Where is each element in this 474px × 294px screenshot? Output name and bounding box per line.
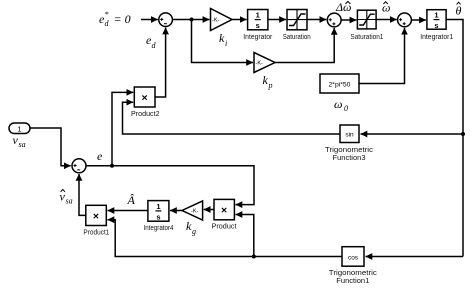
svg-text:Saturation1: Saturation1 [350,34,383,41]
wire ki to Integrator [232,19,247,21]
wire Integrator4 to Product1 input 1 [108,210,148,212]
wire Product2 output up to S1 bottom [155,28,166,97]
svg-text:1: 1 [434,11,438,20]
node junction dot theta line to sin [461,132,465,136]
wire Saturation1 to sum S3 [376,19,397,21]
label Trigonometric Function1 [329,270,378,285]
svg-text:Â: Â [127,193,136,207]
svg-text:s: s [434,21,438,30]
svg-text:Function3: Function3 [333,155,366,162]
svg-text:θ: θ [456,4,462,18]
wire constant to S3 bottom [359,28,405,84]
sum junction S3 (omega + omega0) [398,13,412,27]
node junction dot after S1 [190,18,194,22]
svg-text:Integrator4: Integrator4 [144,225,174,232]
label Trigonometric Function3 [325,147,374,162]
svg-text:Product1: Product1 [83,230,109,237]
node e_d* label [99,10,131,28]
svg-text:ω: ω [334,97,342,111]
wire theta line to sin input [361,133,464,135]
label v_sa [13,133,26,149]
svg-text:Function1: Function1 [336,278,369,285]
svg-text:s: s [256,21,260,30]
svg-text:*: * [105,10,109,19]
wire S2 to Saturation1 [341,19,356,21]
wire e up to Product2 input 1 [112,92,133,165]
block Product1 [86,205,107,225]
wire Integrator1 output down right side [446,20,463,257]
label k_g [186,219,196,236]
svg-text:Saturation: Saturation [283,34,311,41]
wire e_d* input arrow [141,19,158,21]
svg-text:sa: sa [19,140,26,149]
block Integrator4 (1/s) [148,201,169,222]
svg-text:-K-: -K- [256,61,264,67]
svg-text:×: × [221,204,227,216]
block Saturation1 [357,10,376,29]
wire junction down to kp row [192,20,254,63]
sum junction S1 (e_d* minus e_d) [159,13,173,27]
svg-text:= 0: = 0 [111,12,131,26]
svg-text:p: p [268,81,273,90]
svg-text:1: 1 [17,124,21,133]
svg-text:sin: sin [345,132,354,139]
svg-text:Product2: Product2 [131,111,160,118]
svg-text:1: 1 [256,11,260,20]
block Product [214,199,234,219]
block Product2 [134,87,155,107]
wire kg to Integrator4 [170,210,182,212]
gain kp [254,53,275,73]
block cos (Trigonometric Function1) [342,247,364,267]
svg-text:Trigonometric: Trigonometric [325,147,374,154]
svg-text:s: s [156,212,160,221]
label k_i [219,31,227,48]
node junction dot cos line [252,255,256,259]
svg-text:×: × [142,92,148,104]
gain ki [211,9,233,31]
wire Saturation to sum S2 [307,19,326,21]
node Delta-omega-hat label [335,0,352,14]
wire Integrator to Saturation [268,19,286,21]
svg-text:g: g [192,227,196,236]
svg-text:-K-: -K- [191,209,199,215]
wire input 1 to sum E [30,128,71,166]
node junction dot e [110,164,114,168]
svg-text:Trigonometric: Trigonometric [329,270,378,277]
wire Product output to gain kg [204,209,214,211]
svg-text:i: i [225,39,227,48]
node e_d label [146,33,157,50]
input port 1 [9,123,30,134]
svg-text:Integrator: Integrator [243,34,273,41]
wire cos output to Product1 input 2 [108,220,343,257]
svg-text:sa: sa [66,197,73,206]
node theta-hat label [456,2,462,17]
wire theta line to cos input [366,256,464,258]
wire cos junction up to Product input 2 [236,215,254,257]
block sin (Trigonometric Function3) [340,125,359,143]
wire S1 to gain ki [172,19,209,21]
wire sum E output to Product top input [86,166,254,205]
node omega-hat label [382,1,390,15]
svg-text:2*pi*50: 2*pi*50 [329,81,351,88]
label k_p [263,73,273,90]
label omega_0 [334,97,348,113]
svg-text:0: 0 [344,104,348,113]
wire S3 to Integrator1 [411,19,426,21]
block Integrator1 (1/s) [427,10,446,30]
svg-text:1: 1 [156,202,160,211]
svg-text:×: × [93,210,99,222]
node v_sa_hat label [60,190,73,206]
svg-text:Integrator1: Integrator1 [420,34,453,41]
block Integrator (1/s) [248,10,268,31]
wire Product1 output up to sum E bottom [79,174,86,215]
svg-text:Product: Product [212,224,237,231]
sum junction E (v_sa minus v_sa_hat) [72,159,86,173]
svg-text:-K-: -K- [212,18,220,24]
block Saturation [287,10,307,30]
gain kg (mirrored) [182,201,203,220]
constant omega0 2*pi*50 [320,74,359,93]
sum junction S2 (integral + kp paths) [327,13,341,27]
wire kp to S2 bottom [275,28,334,63]
svg-text:e: e [97,149,103,163]
wire sin output to Product2 input 2 [123,102,341,134]
svg-text:cos: cos [348,254,359,261]
